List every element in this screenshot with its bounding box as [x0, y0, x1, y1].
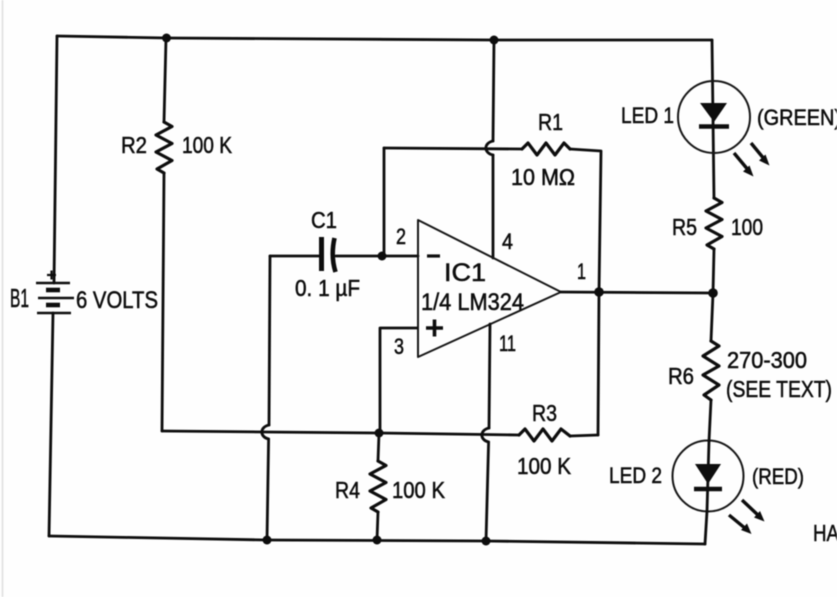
- junction: output / feedback node: [594, 287, 604, 297]
- svg-text:(RED): (RED): [752, 464, 804, 489]
- resistor R5: [706, 198, 722, 249]
- svg-text:10 MΩ: 10 MΩ: [511, 164, 575, 190]
- wire: pin 11 ground drop with hop over net: [489, 324, 490, 428]
- svg-text:R1: R1: [538, 109, 563, 135]
- wire: R3 right lead: [570, 435, 598, 436]
- wire: bottom ground rail: [49, 536, 705, 544]
- resistor R4: [370, 461, 386, 512]
- wire: pin 3 stub: [380, 328, 417, 433]
- wire: LED1 branch from top rail: [712, 40, 714, 198]
- svg-text:HA: HA: [813, 520, 837, 546]
- svg-text:R4: R4: [335, 477, 360, 503]
- resistor R6: [703, 341, 719, 400]
- junction: output to LED column node: [708, 288, 718, 298]
- op-amp non-inverting input marker: [426, 320, 443, 337]
- wire: R2 bottom lead: [162, 173, 164, 431]
- svg-text:(GREEN): (GREEN): [757, 105, 837, 130]
- svg-text:1: 1: [577, 259, 586, 284]
- svg-text:11: 11: [499, 331, 516, 356]
- capacitor C1: [322, 237, 336, 272]
- svg-text:270-300: 270-300: [727, 347, 807, 373]
- svg-text:1/4 LM324: 1/4 LM324: [421, 289, 524, 316]
- svg-text:(SEE TEXT): (SEE TEXT): [726, 376, 832, 402]
- svg-text:R3: R3: [532, 400, 557, 426]
- wire: battery positive lead: [54, 36, 57, 283]
- wire: LED2 cathode lead through circle: [708, 441, 709, 476]
- resistor R3: [519, 429, 570, 441]
- svg-text:100: 100: [731, 214, 763, 240]
- wire: non-inverting net horizontal (R2 to R3): [162, 431, 519, 435]
- svg-text:R6: R6: [668, 363, 694, 389]
- wire: R6 bottom lead into LED2: [709, 400, 711, 441]
- wire: R4 top lead: [378, 433, 379, 461]
- junction: pin 3 / R4 node: [375, 429, 384, 438]
- svg-text:LED 2: LED 2: [609, 463, 662, 488]
- junction: R2 top on rail: [162, 34, 171, 43]
- svg-text:6 VOLTS: 6 VOLTS: [76, 287, 158, 314]
- junction: pin 4 drop on top rail: [490, 36, 499, 45]
- svg-text:100 K: 100 K: [392, 477, 446, 503]
- wire: R4 bottom lead: [377, 512, 378, 540]
- svg-text:LED 1: LED 1: [621, 103, 674, 128]
- svg-text:R2: R2: [121, 132, 147, 158]
- scan border artifact left edge: [2, 0, 4, 597]
- wire: R2 top lead: [164, 38, 166, 122]
- wire: C1 to inverting input pin 2: [336, 255, 418, 258]
- svg-text:4: 4: [502, 229, 513, 254]
- wire: R6 top lead: [711, 293, 713, 341]
- svg-text:100 K: 100 K: [182, 132, 233, 158]
- LED1 diode symbol: [699, 103, 729, 127]
- wire: top supply rail: [57, 36, 712, 40]
- svg-text:0. 1 µF: 0. 1 µF: [295, 275, 360, 301]
- svg-text:B1: B1: [10, 283, 29, 313]
- resistor R1: [522, 143, 570, 155]
- LED2 diode symbol: [694, 464, 722, 489]
- wire: feedback horizontal to R1: [384, 148, 522, 149]
- svg-text:3: 3: [394, 334, 404, 359]
- svg-text:100 K: 100 K: [517, 453, 572, 479]
- wire: feedback vertical from pin 2 node: [383, 148, 386, 256]
- svg-text:2: 2: [396, 224, 406, 249]
- wire: output pin 1: [561, 292, 713, 293]
- wire: C1 left lead: [270, 255, 321, 258]
- svg-text:R5: R5: [672, 214, 697, 240]
- svg-text:IC1: IC1: [444, 259, 486, 287]
- battery B1: [36, 271, 74, 314]
- resistor R2: [156, 122, 172, 173]
- junction: C1 ground branch on bottom rail: [263, 536, 272, 545]
- junction: R4 bottom on rail: [373, 536, 382, 545]
- wire: battery negative lead: [49, 313, 53, 536]
- wire: pin 4 supply drop with hop over feedback wire: [493, 40, 494, 141]
- junction: pin 11 on bottom rail: [482, 537, 491, 546]
- wire: R1 right lead down to output node and on to R3: [570, 149, 601, 435]
- LED2 emission arrows: [729, 500, 765, 534]
- op-amp IC1 triangle: [418, 220, 561, 357]
- LED1 emission arrows: [734, 143, 770, 177]
- op-amp inverting input marker: [427, 254, 440, 257]
- wire: C1 ground branch vertical with hop over net: [269, 256, 270, 425]
- junction: inverting input node: [378, 252, 387, 261]
- LED1 circle: [678, 81, 750, 153]
- svg-text:C1: C1: [311, 207, 337, 233]
- LED2 circle: [673, 441, 744, 512]
- wire: R5 bottom lead: [713, 249, 714, 293]
